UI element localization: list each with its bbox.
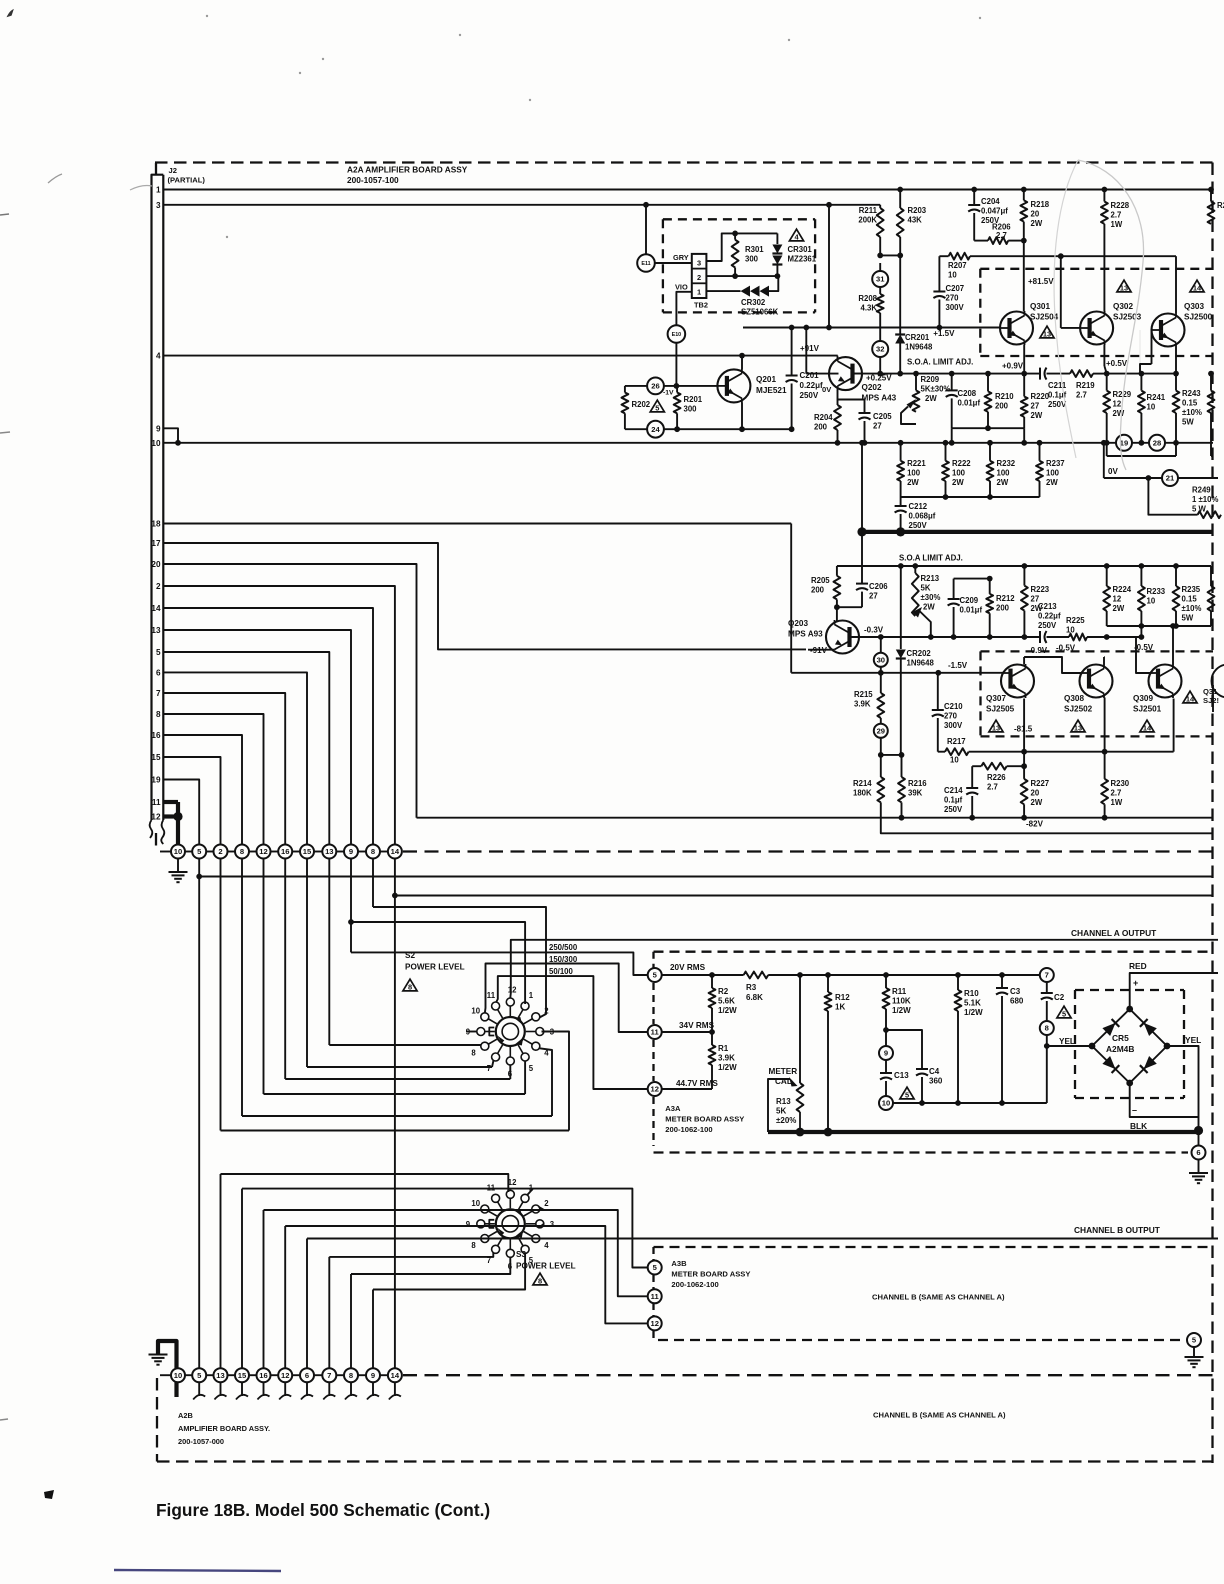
svg-text:110K: 110K — [892, 997, 911, 1006]
svg-text:14: 14 — [1143, 724, 1152, 733]
resistor R214 180K — [880, 755, 882, 777]
svg-text:5W: 5W — [1182, 418, 1194, 427]
svg-text:CHANNEL B (SAME AS CHANNEL A): CHANNEL B (SAME AS CHANNEL A) — [873, 1411, 1006, 1420]
riser x=307 up from lower terminal row — [306, 1239, 308, 1369]
svg-text:METER: METER — [769, 1067, 798, 1076]
svg-text:R3: R3 — [746, 983, 757, 992]
svg-text:2: 2 — [697, 273, 701, 282]
svg-text:12: 12 — [259, 847, 267, 856]
svg-text:R207: R207 — [948, 261, 967, 270]
svg-text:13: 13 — [1074, 724, 1082, 733]
svg-text:250V: 250V — [909, 521, 928, 530]
riser terminal 8b down — [372, 859, 374, 908]
meter terminal 5 (A3B) — [648, 1261, 662, 1275]
svg-text:19: 19 — [151, 776, 161, 785]
resistor R204 200 — [837, 400, 839, 406]
svg-text:2.7: 2.7 — [987, 783, 998, 792]
triangle note 13 at Q302 — [1117, 280, 1131, 292]
wire pin15 L-run to terminal row — [163, 757, 220, 852]
wire pin19 L-run to terminal row — [163, 780, 199, 852]
svg-text:5: 5 — [905, 1091, 909, 1100]
junction R2/R1 34V — [709, 1029, 715, 1035]
wire to ground — [1193, 1347, 1195, 1357]
terminal 10 lower row — [171, 1368, 185, 1382]
svg-text:R208: R208 — [858, 294, 877, 303]
wire pin18 — [163, 523, 791, 525]
wire Q201 collector to +91V — [741, 356, 743, 370]
svg-text:CR5: CR5 — [1112, 1033, 1129, 1043]
svg-text:SJ2502: SJ2502 — [1064, 705, 1093, 714]
riser x=285.2 up from lower terminal row — [284, 1226, 286, 1368]
svg-text:R218: R218 — [1031, 200, 1050, 209]
svg-text:J2: J2 — [169, 166, 177, 175]
wire riser9 to S2 terminal 1 — [351, 922, 525, 1004]
resistor R235 0.15 ±10% 5W — [1175, 566, 1177, 586]
wire base rail y385.9 — [625, 385, 647, 387]
wire Q303 base actual — [1151, 330, 1153, 364]
svg-text:Q31: Q31 — [1203, 687, 1218, 696]
svg-text:R229: R229 — [1113, 390, 1132, 399]
triangle note 5 near C13 — [900, 1087, 914, 1099]
svg-text:18: 18 — [151, 520, 161, 529]
svg-text:8: 8 — [371, 847, 375, 856]
svg-text:C2: C2 — [1054, 993, 1065, 1002]
wire down to C207 — [938, 256, 940, 291]
svg-text:VIO: VIO — [675, 283, 688, 292]
resistor R225 10 — [1047, 636, 1070, 638]
svg-text:C211: C211 — [1048, 381, 1067, 390]
svg-text:2.7: 2.7 — [1111, 211, 1122, 220]
svg-text:C3: C3 — [1010, 987, 1021, 996]
svg-text:R1: R1 — [718, 1044, 729, 1053]
svg-text:7: 7 — [327, 1371, 331, 1380]
svg-text:+: + — [1133, 978, 1138, 988]
svg-text:3.9K: 3.9K — [854, 700, 871, 709]
svg-text:R235: R235 — [1182, 585, 1201, 594]
svg-text:27: 27 — [869, 592, 878, 601]
svg-text:5 W: 5 W — [1192, 505, 1207, 514]
svg-text:SZ51066K: SZ51066K — [741, 308, 779, 317]
svg-text:2.7: 2.7 — [1111, 789, 1122, 798]
svg-text:0.15: 0.15 — [1182, 595, 1198, 604]
svg-text:C213: C213 — [1038, 602, 1057, 611]
bridge diamond CR5 — [1092, 1009, 1167, 1083]
svg-text:R2: R2 — [718, 987, 729, 996]
wire pin8 L-run to terminal row — [163, 714, 263, 852]
svg-text:3.9K: 3.9K — [718, 1054, 735, 1063]
capacitor C211 0.1uf 250V — [1039, 368, 1041, 380]
svg-text:5.6K: 5.6K — [718, 997, 735, 1006]
capacitor C13 — [885, 1060, 887, 1073]
svg-text:13: 13 — [325, 847, 333, 856]
resistor R232 100 2W — [987, 440, 993, 446]
transistor Q202 MPS A43 — [829, 357, 862, 390]
terminal 16 lower row — [257, 1368, 271, 1382]
svg-text:YEL: YEL — [1185, 1035, 1201, 1045]
wire +0.9V node rail — [880, 373, 1040, 375]
wire riser to S3 terminal 12 — [221, 1174, 509, 1192]
svg-text:0.068μf: 0.068μf — [909, 512, 936, 521]
wire RED + output — [1130, 973, 1218, 1009]
svg-text:C209: C209 — [960, 596, 979, 605]
wire Q309 emitter up — [1172, 626, 1174, 664]
svg-text:R210: R210 — [995, 392, 1014, 401]
wire 20V RMS rail — [662, 974, 744, 976]
svg-text:2W: 2W — [925, 394, 937, 403]
svg-text:200-1057-100: 200-1057-100 — [347, 175, 399, 185]
svg-text:A3A: A3A — [665, 1104, 681, 1113]
junction riser9 — [348, 919, 354, 925]
svg-text:+0.5V: +0.5V — [1106, 359, 1128, 368]
wire pin9/10 rail 0V — [163, 442, 1213, 444]
svg-text:R209: R209 — [921, 375, 940, 384]
resistor R243 0.15 ±10% 5W — [1175, 374, 1177, 391]
svg-text:9: 9 — [466, 1220, 471, 1229]
svg-text:1/2W: 1/2W — [718, 1006, 737, 1015]
terminals 19 28 on rail — [1116, 435, 1132, 451]
svg-text:12: 12 — [508, 986, 517, 995]
junction BLK to ground bus — [1194, 1126, 1203, 1135]
svg-text:1N9648: 1N9648 — [907, 659, 935, 668]
meter terminal 11 (A3B) — [648, 1289, 662, 1303]
svg-text:±20%: ±20% — [776, 1116, 796, 1125]
ground channel B output — [1185, 1356, 1204, 1358]
resistor R11 110K 1/2W — [885, 975, 887, 988]
svg-text:360: 360 — [929, 1077, 943, 1086]
svg-text:10: 10 — [1066, 626, 1075, 635]
svg-text:8: 8 — [349, 1371, 353, 1380]
svg-text:S3: S3 — [516, 1250, 526, 1259]
resistor R220 27 2W — [1023, 374, 1025, 397]
svg-text:R204: R204 — [814, 413, 833, 422]
terminal 12 upper row — [257, 845, 271, 859]
margin marks — [0, 214, 9, 215]
wire thick riser to terminal 10 — [176, 802, 180, 845]
svg-text:-0.9V: -0.9V — [1028, 646, 1048, 655]
svg-text:2W: 2W — [997, 478, 1009, 487]
svg-text:29: 29 — [877, 727, 885, 736]
terminal 30 — [874, 653, 888, 667]
wire long rail y877 — [199, 876, 1213, 878]
A2A amplifier board assy dashed border top edge — [155, 161, 1213, 163]
svg-text:Q309: Q309 — [1133, 694, 1153, 703]
svg-text:R213: R213 — [921, 574, 940, 583]
svg-text:4.3K: 4.3K — [861, 304, 878, 313]
terminal 32 — [872, 341, 888, 357]
terminal 6 channel A ground — [1192, 1146, 1206, 1160]
wire pin7 L-run to terminal row — [163, 693, 285, 852]
svg-text:9: 9 — [884, 1049, 888, 1058]
wire Q202 emitter down — [837, 390, 839, 400]
svg-text:±10%: ±10% — [1182, 408, 1202, 417]
svg-text:1W: 1W — [1111, 798, 1123, 807]
svg-text:13: 13 — [992, 724, 1000, 733]
wire YEL node to mid bus — [1046, 1046, 1048, 1103]
connector J2 torn edge break — [150, 820, 165, 844]
resistor R230 2.7 1W — [1104, 752, 1106, 779]
svg-text:11: 11 — [651, 1292, 660, 1301]
svg-text:10: 10 — [174, 847, 182, 856]
resistor R241 10 — [1140, 374, 1142, 391]
svg-text:0.01μf: 0.01μf — [960, 606, 983, 615]
wire Q203 collector node — [837, 606, 862, 608]
terminal 15 upper row — [300, 845, 314, 859]
svg-text:300: 300 — [684, 405, 698, 414]
resistor R210 200 — [987, 374, 989, 392]
svg-text:POWER LEVEL: POWER LEVEL — [405, 963, 465, 972]
svg-text:E10: E10 — [672, 332, 682, 338]
svg-text:SJ2500: SJ2500 — [1184, 313, 1213, 322]
svg-text:C204: C204 — [981, 197, 1000, 206]
faint pencil squiggle artifact — [1078, 160, 1144, 470]
svg-text:+1.5V: +1.5V — [933, 329, 955, 338]
wire stub below lower terminal x=263.5 — [263, 1382, 265, 1396]
svg-text:13: 13 — [216, 1371, 224, 1380]
svg-text:100: 100 — [952, 469, 966, 478]
wire stub below lower terminal x=307 — [306, 1382, 308, 1396]
svg-text:R202: R202 — [632, 400, 651, 409]
svg-text:13: 13 — [151, 626, 161, 635]
svg-text:15: 15 — [303, 847, 312, 856]
svg-text:3: 3 — [156, 201, 161, 210]
svg-text:MJE521: MJE521 — [756, 386, 787, 395]
svg-text:16: 16 — [259, 1371, 267, 1380]
svg-text:A2A AMPLIFIER BOARD ASSY: A2A AMPLIFIER BOARD ASSY — [347, 165, 468, 175]
wire Q307 to -0.9V — [1023, 657, 1025, 664]
terminal 8 upper row — [235, 845, 249, 859]
capacitor C201 0.22uf 250V — [791, 328, 793, 376]
svg-text:24: 24 — [651, 425, 660, 434]
svg-text:0.01μf: 0.01μf — [958, 399, 981, 408]
terminal 31 — [872, 271, 888, 287]
svg-text:R205: R205 — [811, 576, 830, 585]
wire Q202 emitter node — [838, 399, 865, 401]
cut-off resistor right edge — [1210, 374, 1212, 391]
svg-text:0.22μf: 0.22μf — [800, 381, 823, 390]
svg-text:1/2W: 1/2W — [718, 1063, 737, 1072]
wire R214 to -82 rail corner — [881, 802, 1213, 833]
svg-text:1W: 1W — [1111, 220, 1123, 229]
svg-text:300: 300 — [745, 255, 759, 264]
svg-text:200-1062-100: 200-1062-100 — [665, 1125, 712, 1134]
meter cal pot R13 5K ±20% — [799, 975, 801, 1083]
svg-text:5: 5 — [529, 1064, 534, 1073]
junction R11/C4 branch — [883, 1027, 889, 1033]
wire 250/500 from riser9 to meter A3A terminal 5 — [351, 952, 648, 975]
riser x=263.5 up from lower terminal row — [263, 1210, 265, 1368]
transistor Q201 MJE521 — [717, 369, 750, 402]
svg-text:3: 3 — [550, 1220, 555, 1229]
svg-text:250V: 250V — [1048, 400, 1067, 409]
svg-text:2: 2 — [544, 1007, 549, 1016]
svg-text:10: 10 — [882, 1099, 890, 1108]
ground channel A output — [1189, 1172, 1208, 1174]
svg-text:SJ2503: SJ2503 — [1113, 313, 1142, 322]
terminal 8 upper row — [366, 845, 380, 859]
svg-text:17: 17 — [151, 539, 161, 548]
svg-text:3: 3 — [697, 258, 701, 267]
resistor R226 2.7 — [972, 765, 981, 767]
svg-text:2W: 2W — [907, 478, 919, 487]
transistor Q303 SJ2500 — [1152, 314, 1185, 347]
svg-text:R201: R201 — [684, 395, 703, 404]
wire x862 vertical upper — [861, 443, 863, 532]
riser x=242 down to S2 feed y=1116 — [241, 859, 243, 1117]
svg-text:8: 8 — [408, 983, 412, 992]
svg-text:200-1062-100: 200-1062-100 — [671, 1280, 718, 1289]
svg-text:39K: 39K — [908, 789, 923, 798]
svg-text:R230: R230 — [1111, 779, 1130, 788]
svg-text:200: 200 — [811, 586, 825, 595]
svg-text:-82V: -82V — [1026, 820, 1044, 829]
svg-text:250/500: 250/500 — [549, 943, 578, 952]
terminal 13 lower row — [214, 1368, 228, 1382]
svg-text:5K: 5K — [776, 1107, 786, 1116]
wire Q307 emitter down — [1023, 699, 1025, 779]
wire pin6 L-run to terminal row — [163, 672, 307, 851]
terminal 26 — [647, 378, 664, 395]
terminal 5 lower row — [192, 1368, 206, 1382]
meter terminal 8 — [1040, 1021, 1054, 1035]
svg-text:32: 32 — [876, 345, 884, 354]
wire E10 down — [675, 343, 677, 386]
svg-text:2.7: 2.7 — [996, 231, 1007, 240]
wire pin9 jog to pin10 — [163, 428, 178, 443]
wire pin13 L-run to terminal row — [163, 630, 351, 852]
svg-text:R243: R243 — [1182, 389, 1201, 398]
svg-text:27: 27 — [1031, 402, 1040, 411]
resistor R202 — [624, 386, 626, 393]
resistor R223 27 2W — [1023, 566, 1025, 586]
capacitor C207 270 300V — [933, 291, 945, 293]
svg-text:6: 6 — [305, 1371, 309, 1380]
resistor R208 4.3K — [877, 294, 884, 313]
terminal 10 upper row — [171, 845, 185, 859]
wire -82V rail y817.7 — [417, 817, 1214, 819]
svg-text:26: 26 — [651, 382, 659, 391]
dashed segments between terminal circles — [185, 851, 192, 853]
riser x=285.2 down to S2 feed y=1079 — [284, 859, 286, 1080]
svg-text:9: 9 — [156, 424, 161, 433]
svg-text:200: 200 — [995, 402, 1009, 411]
svg-text:-0.3V: -0.3V — [864, 626, 884, 635]
wire pin4 +91V rail — [163, 355, 837, 357]
svg-text:C207: C207 — [946, 284, 965, 293]
svg-text:14: 14 — [1186, 695, 1195, 704]
svg-text:12: 12 — [1113, 595, 1122, 604]
wire 50/100 t11 to meter terminal 12 — [496, 976, 647, 1089]
svg-text:R232: R232 — [997, 459, 1016, 468]
svg-text:14: 14 — [151, 604, 161, 613]
svg-text:YEL: YEL — [1059, 1037, 1075, 1046]
svg-text:MZ2361: MZ2361 — [788, 255, 817, 264]
svg-text:S.O.A. LIMIT ADJ.: S.O.A. LIMIT ADJ. — [907, 358, 973, 367]
wire Q302 base drop — [1060, 256, 1062, 328]
svg-text:1: 1 — [697, 288, 701, 297]
svg-text:2: 2 — [218, 847, 222, 856]
wire pin14 L-run to terminal row — [163, 608, 373, 852]
svg-text:8: 8 — [538, 1277, 542, 1286]
wire emitter rail y429.2 — [625, 428, 647, 430]
svg-text:C210: C210 — [944, 702, 963, 711]
svg-text:2.7: 2.7 — [1076, 391, 1087, 400]
svg-text:±10%: ±10% — [1182, 604, 1202, 613]
svg-text:R11: R11 — [892, 987, 907, 996]
svg-text:200-1057-000: 200-1057-000 — [178, 1437, 224, 1446]
terminal 29 — [874, 724, 888, 738]
wire long rail y895 — [395, 895, 1213, 897]
riser x=242 up from lower terminal row — [241, 1189, 243, 1369]
svg-text:SJ2!: SJ2! — [1203, 696, 1219, 705]
wire y428 bus — [952, 427, 1024, 429]
wire y456 link — [1106, 443, 1108, 456]
svg-text:+0.9V: +0.9V — [1002, 362, 1024, 371]
wire riser/S3 terminal 4 channel B output — [307, 1238, 1218, 1240]
terminal E11 — [637, 254, 655, 272]
capacitor C209 0.01uf — [953, 579, 955, 599]
meter terminal 11 (A3A) — [648, 1025, 662, 1039]
triangle note 14 at Q309 — [1140, 720, 1154, 732]
svg-text:R215: R215 — [854, 690, 873, 699]
svg-text:R225: R225 — [1066, 616, 1085, 625]
svg-text:C208: C208 — [958, 389, 977, 398]
svg-text:2W: 2W — [1113, 604, 1125, 613]
svg-text:Figure 18B. Model 500 Schemat: Figure 18B. Model 500 Schematic (Cont.) — [156, 1500, 490, 1520]
svg-text:1/2W: 1/2W — [964, 1008, 983, 1017]
svg-text:A2M4B: A2M4B — [1106, 1044, 1134, 1054]
wire pin3 — [163, 204, 880, 206]
resistor R211 200K — [879, 205, 881, 208]
svg-text:8: 8 — [1045, 1024, 1049, 1033]
transistor Q308 SJ2502 — [1080, 665, 1113, 698]
terminal 6 lower row — [300, 1368, 314, 1382]
svg-text:MPS A43: MPS A43 — [862, 394, 897, 403]
svg-text:12: 12 — [281, 1371, 289, 1380]
svg-text:8: 8 — [471, 1241, 476, 1250]
svg-text:E11: E11 — [641, 261, 650, 267]
svg-text:R226: R226 — [987, 773, 1006, 782]
wire Q309 collector — [1173, 699, 1175, 752]
svg-text:180K: 180K — [853, 789, 872, 798]
svg-text:10: 10 — [1147, 403, 1156, 412]
svg-text:R212: R212 — [996, 594, 1015, 603]
svg-text:10: 10 — [1147, 597, 1156, 606]
svg-text:5: 5 — [156, 648, 161, 657]
wire riser/S3 terminal 1 to A3B terminal 5 — [242, 1189, 648, 1268]
wire pin20 to -82V rail — [163, 564, 416, 818]
wire TB2-1 VIO to E10 — [676, 292, 691, 326]
svg-text:6.8K: 6.8K — [746, 993, 763, 1002]
svg-text:5K±30%: 5K±30% — [921, 385, 951, 394]
svg-text:CR301: CR301 — [788, 245, 813, 254]
wire to ground — [1198, 1159, 1200, 1172]
wire Q303 collector drop — [1175, 256, 1177, 313]
wire stub below lower terminal x=394.9 — [394, 1382, 396, 1396]
resistor R228 2.7 1W — [1103, 190, 1105, 202]
resistor R222 100 2W — [943, 440, 949, 446]
svg-text:R211: R211 — [859, 206, 878, 215]
terminal 24 — [647, 421, 664, 438]
svg-text:13: 13 — [1043, 330, 1051, 339]
svg-text:R13: R13 — [776, 1097, 791, 1106]
wire stub below lower terminal x=285.2 — [284, 1382, 286, 1396]
svg-text:31: 31 — [876, 275, 885, 284]
svg-text:10: 10 — [471, 1007, 480, 1016]
svg-text:5.1K: 5.1K — [964, 999, 981, 1008]
svg-text:1 ±10%: 1 ±10% — [1192, 495, 1218, 504]
resistor R224 12 2W — [1106, 566, 1108, 586]
wire y626 bottoms — [1107, 625, 1211, 627]
